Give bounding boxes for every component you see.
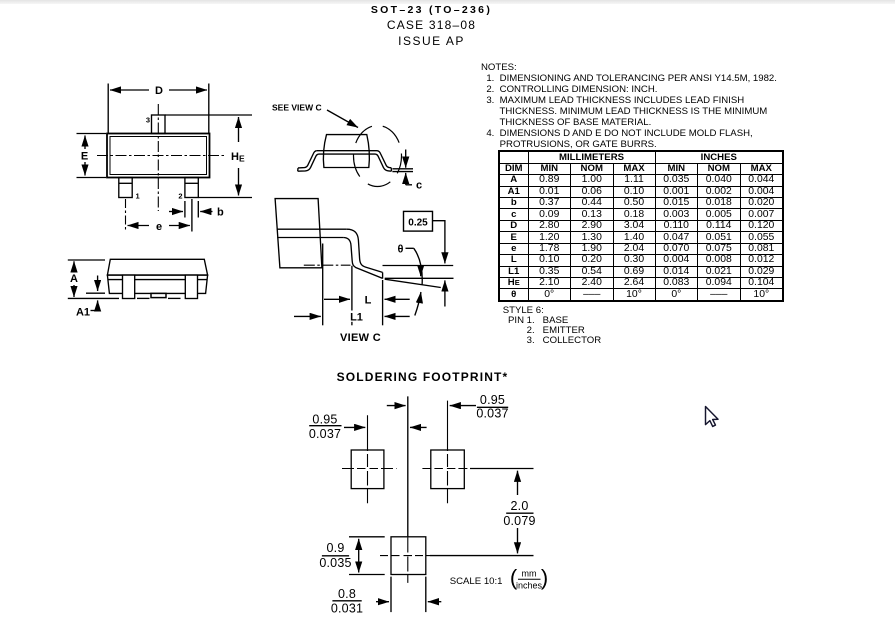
footprint: bottom pad horizontal center line <box>380 555 430 557</box>
top view: pin 2 <box>185 178 198 198</box>
view c: seating plane line <box>383 265 454 267</box>
view c: 0.25 box <box>404 211 433 231</box>
svg-text:A: A <box>70 273 78 285</box>
see view c: right gull-wing lead <box>377 151 391 168</box>
footprint: 0.9 extension lines <box>349 536 385 538</box>
side view: body band lower line <box>108 279 207 281</box>
svg-text:0.037: 0.037 <box>309 427 341 441</box>
svg-text:): ) <box>541 565 548 590</box>
see view c: c dimension upper arrow <box>405 150 407 168</box>
side view: A1 lower arrow and leader <box>97 300 99 310</box>
svg-text:2: 2 <box>178 192 182 201</box>
svg-text:L1: L1 <box>350 312 363 324</box>
svg-text:c: c <box>416 180 422 192</box>
svg-text:0.079: 0.079 <box>503 514 535 528</box>
see view c: dashed ellipse <box>354 126 402 187</box>
svg-text:SCALE 10:1: SCALE 10:1 <box>450 576 503 587</box>
see view c: lead band lower line <box>319 153 375 155</box>
top view: dimension D arrows <box>110 89 149 91</box>
view c: lead bend outer <box>347 229 383 272</box>
top view: b dimension arrows <box>169 211 183 213</box>
svg-text:0.25: 0.25 <box>408 218 428 229</box>
top view: package body outer <box>107 134 210 178</box>
svg-text:HE: HE <box>231 151 245 164</box>
top view: package body inner line <box>110 137 207 175</box>
top view: E extension lines <box>77 133 107 135</box>
top view: e dimension arrows <box>128 225 150 227</box>
see view c: left gull-wing lead <box>298 151 317 168</box>
view c: gap up arrow <box>444 280 446 306</box>
view c: foot tip cap <box>382 272 384 278</box>
svg-text:0.031: 0.031 <box>331 601 363 615</box>
footprint: left pad <box>351 450 384 489</box>
view c: center dash line <box>304 264 351 266</box>
footprint: left pad vertical center line <box>367 415 369 503</box>
top view: HE dimension arrows <box>238 117 240 142</box>
svg-text:0.035: 0.035 <box>319 556 351 570</box>
svg-text:e: e <box>156 221 162 233</box>
view c: L1 extension line <box>322 244 324 326</box>
view c: foot angle extension line <box>385 279 441 287</box>
svg-text:b: b <box>217 207 224 219</box>
view c: lower parallel line <box>385 277 454 279</box>
top view: HE top extension line <box>165 114 252 116</box>
side view: body top cap <box>107 259 207 275</box>
footprint: top-right 0.95 arrows <box>450 405 476 407</box>
svg-text:0.037: 0.037 <box>476 406 508 420</box>
footprint: 0.8 extension lines <box>390 577 392 613</box>
top view: HE bottom extension line <box>199 197 253 199</box>
svg-text:A1: A1 <box>76 307 90 319</box>
view c: L dimension arrows <box>324 298 350 300</box>
top view: b extension lines <box>184 201 186 218</box>
svg-text:0.8: 0.8 <box>338 587 356 601</box>
svg-text:0.9: 0.9 <box>327 541 345 555</box>
view c: theta arc lower with arrow <box>415 292 421 316</box>
top view: dimension D extension lines <box>107 84 109 134</box>
top view: pin 1 center line <box>125 199 127 232</box>
side view: A top extension line <box>68 259 105 261</box>
svg-text:L: L <box>365 295 372 307</box>
footprint: 2.0 dimension arrows <box>517 471 519 495</box>
footprint: central axis line <box>407 396 409 536</box>
footprint: bottom pad <box>391 537 426 575</box>
view c: lead bend inner <box>343 238 382 279</box>
footprint: 0.9 dimension double arrow <box>358 539 360 573</box>
svg-text:0.95: 0.95 <box>312 413 337 427</box>
svg-text:inches: inches <box>516 581 543 591</box>
side view: seating plane line <box>68 297 119 299</box>
top view: pin 3 tab <box>152 115 166 134</box>
see view c: c lower arrow and leader <box>405 173 407 182</box>
svg-text:θ: θ <box>398 244 404 256</box>
footprint: left pad horizontal center line <box>342 468 397 470</box>
svg-text:E: E <box>81 151 88 163</box>
view c: 0.25 leader and arrow <box>433 221 445 238</box>
svg-text:SEE VIEW C: SEE VIEW C <box>272 103 322 113</box>
top view: pin 2 center extension line <box>191 199 193 232</box>
side view: body lower block <box>107 275 207 293</box>
side view: A dimension arrows <box>73 261 75 271</box>
footprint: right pad horizontal center line <box>422 468 470 470</box>
footprint: top-left 0.95 arrows <box>344 426 365 428</box>
mouse cursor <box>706 407 719 427</box>
view c: lead band lower <box>277 237 343 239</box>
see view c: body <box>323 135 369 168</box>
side view: A1 upper arrow <box>97 276 99 292</box>
top view: E dimension arrows <box>84 136 86 150</box>
top view: pin 1 <box>119 178 132 198</box>
footprint: right pad vertical center line <box>447 401 449 504</box>
svg-text:D: D <box>155 85 163 97</box>
svg-text:1: 1 <box>136 192 140 201</box>
view c: theta leader <box>406 247 414 249</box>
see view c: lead band upper line <box>317 150 377 152</box>
view c: L1 dimension arrows <box>294 315 321 317</box>
top view: horizontal center line <box>97 155 225 157</box>
footprint: right pad <box>431 450 465 489</box>
svg-text:mm: mm <box>522 569 537 579</box>
side view: center tab <box>151 293 166 297</box>
see view c: leader arrow <box>327 110 358 128</box>
view c: lead band upper <box>277 228 347 230</box>
see view c: c gage lines <box>392 168 413 170</box>
side view: lead left <box>123 275 135 298</box>
footprint: 0.8 dimension arrows <box>376 601 389 603</box>
view c: gap down arrow <box>420 266 422 276</box>
svg-text:VIEW C: VIEW C <box>340 332 381 344</box>
side view: lead right <box>185 275 197 298</box>
top view: vertical center line <box>157 104 159 211</box>
view c: theta arc upper <box>414 248 422 284</box>
view c: L extension lines <box>351 266 353 311</box>
svg-text:2.0: 2.0 <box>511 499 529 513</box>
svg-text:0.95: 0.95 <box>480 393 505 407</box>
view c: body block <box>275 199 322 268</box>
svg-text:3: 3 <box>146 116 150 125</box>
